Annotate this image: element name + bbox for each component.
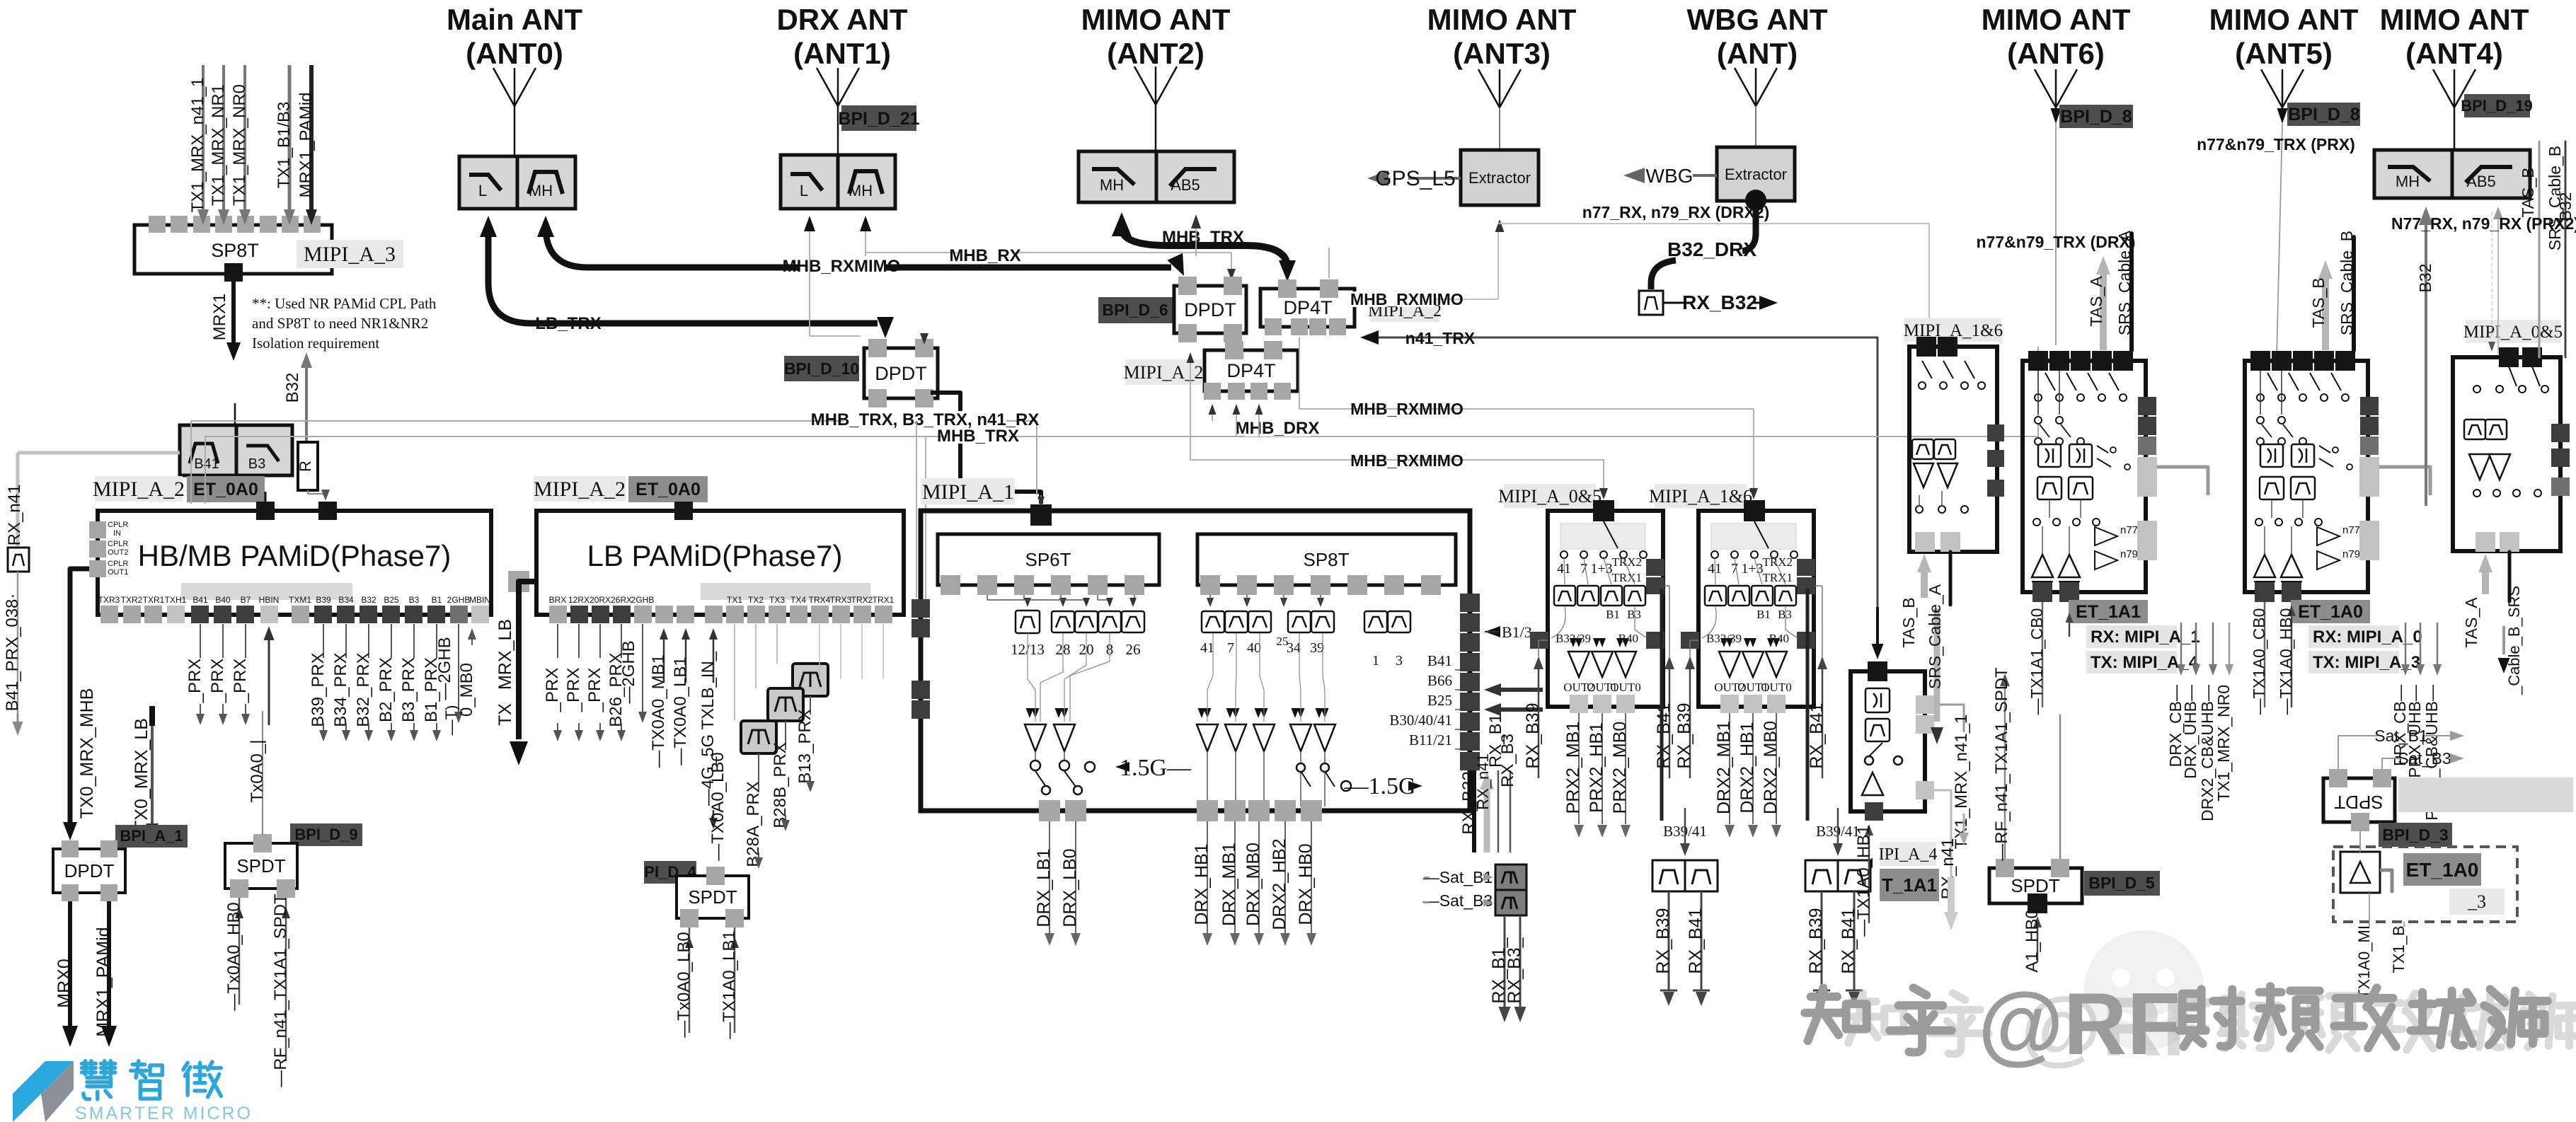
switch DPDT BPI_D_10: [864, 348, 938, 398]
pin module right stack 2: [1460, 613, 1480, 632]
wire TAS_A ANT6: [2100, 272, 2107, 350]
svg-text:MBIN: MBIN: [469, 595, 490, 605]
svg-text:DP4T: DP4T: [1283, 297, 1332, 318]
filter Sat stack: [1495, 864, 1526, 890]
switch SPDT left: [225, 843, 297, 889]
svg-text:—2GHB: —2GHB: [619, 640, 638, 703]
svg-text:_PRX: _PRX: [585, 668, 604, 713]
redaction bar right: [2398, 777, 2573, 812]
wire RX_n41 down: [1934, 790, 1951, 877]
pins HB/MB bottom row: [103, 613, 485, 617]
filter TAS: [1865, 719, 1890, 741]
label BPI_D_8 ANT5: [2287, 103, 2360, 126]
logo Smarter Micro: [13, 1061, 74, 1094]
filter 34: [1288, 611, 1311, 632]
label BPI_A_1: [115, 825, 188, 848]
svg-text:RX_B39: RX_B39: [1674, 702, 1694, 768]
wire RX_B3 arrow: [1490, 707, 1543, 712]
svg-text:MHB_TRX: MHB_TRX: [937, 427, 1019, 446]
wire MHB_TRX thick: [1122, 228, 1287, 267]
svg-text:—TX1A0_HB0: —TX1A0_HB0: [2277, 608, 2295, 715]
wire RX_B1 arrow: [1490, 688, 1543, 692]
svg-text:—Tx0A0_HB0: —Tx0A0_HB0: [224, 902, 243, 1010]
wire Tx0A0_LB0: [689, 927, 691, 1033]
svg-text:39: 39: [1310, 640, 1324, 656]
svg-text:RX_B41: RX_B41: [1686, 908, 1706, 973]
svg-text:SP8T: SP8T: [1303, 549, 1349, 570]
svg-text:TAS_B: TAS_B: [2309, 277, 2328, 328]
svg-text:TRX3: TRX3: [830, 595, 852, 605]
svg-text:BPI_D_6: BPI_D_6: [1102, 301, 1168, 319]
svg-text:_Cable_B_SRS: _Cable_B_SRS: [2505, 586, 2523, 695]
wire PRX_UHB: [2420, 623, 2422, 666]
svg-text:BPI_D_8: BPI_D_8: [2060, 107, 2132, 127]
bus MHB_TRX B3_TRX n41_RX: [191, 421, 1030, 504]
svg-text:TAS_A: TAS_A: [2087, 276, 2105, 327]
pin LB top: [674, 502, 693, 520]
pin module right stack 4: [1460, 653, 1480, 671]
watermark zhihu: [2084, 930, 2204, 1051]
wire Tx0A0: [262, 711, 263, 835]
svg-text:TX1_MRX_NR0: TX1_MRX_NR0: [2214, 685, 2233, 802]
svg-text:MHB_RXMIMO: MHB_RXMIMO: [1350, 290, 1464, 308]
pin R1 right 1: [1987, 424, 2004, 441]
filter B28B: [768, 688, 803, 721]
svg-text:2GHB: 2GHB: [631, 595, 655, 605]
svg-text:B39: B39: [316, 595, 331, 605]
wire TX1_MRX_NR1: [222, 65, 225, 211]
svg-text:(ANT): (ANT): [1717, 37, 1798, 70]
svg-text:@RF: @RF: [1978, 976, 2180, 1073]
switch lever R1: [1922, 361, 1932, 378]
wire DRX2_MB1: [1729, 713, 1730, 824]
svg-text:RX_B41: RX_B41: [1807, 702, 1827, 768]
svg-text:34: 34: [1287, 640, 1301, 656]
svg-text:TX1_B1/B3: TX1_B1/B3: [275, 102, 294, 189]
svg-text:TRX2: TRX2: [851, 595, 873, 605]
switch lever R1: [1965, 361, 1974, 378]
wire WBG: [1693, 174, 1717, 177]
wire MHB_RXMIMO riser to extractor: [1497, 225, 1499, 299]
wire A1_HB0: [2037, 926, 2039, 962]
amp TAS: [1862, 773, 1883, 795]
amp RX MHB: [1253, 724, 1275, 751]
svg-text:TX1_MRX_n41_1: TX1_MRX_n41_1: [1952, 715, 1971, 850]
filter 8: [1098, 611, 1121, 632]
module HB/MB PAMiD: [98, 511, 491, 615]
switch DP4T top: [1260, 289, 1355, 327]
svg-text:DRX_LB0: DRX_LB0: [1060, 848, 1080, 927]
amp RX MHB: [1314, 724, 1335, 751]
svg-text:RX_B41: RX_B41: [1654, 702, 1674, 768]
wire TX0A0_LB1: [685, 638, 687, 683]
svg-text:B11/21: B11/21: [1409, 731, 1452, 748]
label A_3: [2449, 889, 2505, 915]
pin R1 right 2: [1987, 450, 2004, 467]
svg-text:—1.5G: —1.5G: [1343, 773, 1415, 799]
module R1 DRX2: [1909, 347, 1997, 552]
svg-text:Sat_B3: Sat_B3: [2398, 749, 2451, 768]
svg-text:B3_PRX: B3_PRX: [399, 657, 418, 722]
wire riser DP4T top-right: [1328, 248, 1330, 278]
svg-text:n77: n77: [2342, 524, 2360, 536]
wire DPDT to center module: [931, 393, 1041, 504]
svg-text:CPLR: CPLR: [108, 560, 128, 568]
svg-text:SPDT: SPDT: [236, 855, 285, 877]
wire RX_B39: [1668, 891, 1670, 990]
svg-text:_PRX: _PRX: [231, 659, 250, 704]
svg-text:RX_B39: RX_B39: [1523, 702, 1543, 768]
svg-text:B3: B3: [1778, 608, 1792, 621]
svg-text:TRX1: TRX1: [1763, 571, 1793, 584]
svg-text:OUT1: OUT1: [108, 568, 128, 577]
svg-text:TRX4: TRX4: [809, 595, 831, 605]
wire to AB5 ANT4: [2497, 219, 2499, 354]
svg-text:SRS_Cable_A: SRS_Cable_A: [1926, 584, 1944, 689]
pin module right stack 6: [1460, 693, 1480, 711]
pin module right stack 5: [1460, 673, 1480, 691]
svg-text:—RF_n41_TX1A1_SPDT: —RF_n41_TX1A1_SPDT: [1992, 667, 2011, 861]
diplexer ANT4 MH/AB5: [2374, 150, 2452, 198]
wire RX_B41 thick col 2: [1806, 589, 1810, 821]
svg-text:CPLR: CPLR: [108, 521, 128, 529]
svg-text:MHB_RXMIMO: MHB_RXMIMO: [1350, 400, 1464, 418]
svg-text:TAS_A: TAS_A: [2462, 597, 2480, 648]
wire ANT6 to module: [2055, 124, 2057, 345]
label B1/3: [1485, 626, 1500, 637]
svg-text:—T): —T): [442, 705, 460, 736]
label BPI_D_10: [784, 356, 859, 381]
svg-text:MH: MH: [849, 182, 873, 199]
wire Sat_B1: [2338, 736, 2378, 769]
label BPI_D_3: [2379, 823, 2452, 848]
svg-text:12RX: 12RX: [568, 595, 590, 605]
svg-text:TXR3: TXR3: [98, 595, 120, 605]
svg-text:CPLR: CPLR: [108, 540, 128, 548]
svg-text:25: 25: [1277, 635, 1289, 648]
wire B13_PRX: [810, 696, 811, 715]
wire HBIN input: [268, 639, 270, 725]
diplexer ANT2 MH/AB5: [1079, 151, 1156, 202]
pin module left 2: [912, 619, 930, 637]
resistor R: [298, 442, 318, 490]
svg-text:1: 1: [1372, 653, 1379, 669]
filter pair RX: [1652, 860, 1685, 891]
svg-text:n77: n77: [2120, 524, 2138, 536]
wire DRX_LB1: [1049, 821, 1050, 934]
svg-text:7: 7: [1227, 640, 1234, 656]
switch SPDT mirrored: [2323, 778, 2395, 822]
svg-text:B41: B41: [194, 456, 219, 472]
svg-text:MIMO ANT: MIMO ANT: [1982, 3, 2131, 36]
label MIPI_A_2 DP4T: [1370, 299, 1439, 322]
svg-text:(ANT5): (ANT5): [2235, 37, 2333, 70]
svg-text:—TX0A0_LB0: —TX0A0_LB0: [708, 752, 728, 860]
svg-text:DPDT: DPDT: [1184, 299, 1236, 320]
svg-text:DRX_HB1: DRX_HB1: [1192, 843, 1212, 925]
pin module right stack 9: [1460, 752, 1480, 770]
svg-text:RX_B39: RX_B39: [1653, 908, 1673, 973]
switch 1.5G left: [1085, 762, 1095, 772]
antenna ANT: [1735, 68, 1777, 106]
filter B41/B3: [180, 425, 236, 475]
svg-text:1+3: 1+3: [1590, 561, 1612, 577]
svg-text:MHB_RX: MHB_RX: [949, 246, 1020, 265]
pin module left 1: [912, 599, 930, 618]
svg-text:TX0_MRX_MHB: TX0_MRX_MHB: [77, 688, 97, 819]
module center switch bank: [921, 511, 1470, 811]
label ET_0A0 LB: [628, 476, 708, 502]
svg-text:MIPI_A_2: MIPI_A_2: [93, 478, 185, 501]
diplexer ANT1 L/MH: [781, 155, 838, 209]
svg-text:BPI_D_9: BPI_D_9: [294, 826, 357, 843]
svg-text:ET_1A1: ET_1A1: [2076, 602, 2141, 622]
wire RX_B1 out: [1504, 915, 1506, 1008]
wire DRX2_MB0: [1776, 713, 1777, 824]
svg-text:B34: B34: [338, 595, 354, 605]
wire DRX2_HB1: [1752, 713, 1754, 824]
wire DRX2_CB&UHB: [2212, 623, 2214, 666]
wire RX_B41: [1853, 891, 1856, 990]
svg-text:—TX1A1_CB0: —TX1A1_CB0: [2028, 608, 2046, 715]
wire 0_MB0: [471, 638, 473, 645]
svg-text:MRX_LB: MRX_LB: [495, 619, 515, 690]
wire RX_B41 thick col 1: [1660, 589, 1664, 821]
switch SP8T center: [1197, 534, 1456, 585]
svg-text:TXR1: TXR1: [143, 595, 165, 605]
svg-text:BPI_D_3: BPI_D_3: [2382, 826, 2448, 844]
svg-text:_PRX: _PRX: [185, 659, 205, 704]
amp R1 a: [1914, 463, 1933, 487]
svg-text:RX_n41: RX_n41: [5, 485, 24, 546]
svg-text:26RX: 26RX: [611, 595, 632, 605]
svg-text:2GHB: 2GHB: [447, 595, 471, 605]
svg-text:DRX2_MB0: DRX2_MB0: [1761, 721, 1781, 814]
wire 2GHB: [458, 624, 459, 704]
wire PRX2_HB1: [1602, 713, 1603, 824]
pins SP8T outputs: [1200, 575, 1220, 595]
svg-text:MIPI_A_2: MIPI_A_2: [1124, 362, 1204, 383]
amp R4 b: [2489, 454, 2510, 480]
label ET_1A1 TAS: [1880, 869, 1939, 901]
antenna ANT0: [493, 68, 536, 106]
wire TAS_A R4: [2482, 569, 2489, 594]
svg-text:B32: B32: [283, 373, 302, 403]
switch DPDT bottom-left: [53, 849, 125, 893]
svg-text:WBG: WBG: [1646, 165, 1694, 187]
svg-text:B3: B3: [1627, 608, 1641, 621]
svg-text:TX3: TX3: [769, 595, 785, 605]
label BPI_D_6: [1098, 297, 1173, 323]
svg-text:IPI_A_4: IPI_A_4: [1879, 845, 1938, 864]
amp RX LB: [1054, 724, 1075, 751]
svg-text:DRX2_HB1: DRX2_HB1: [1737, 722, 1757, 813]
svg-text:n79: n79: [2342, 548, 2360, 560]
wire into TAS top: [1876, 607, 1879, 645]
module R2 ANT6 TRX: [2023, 361, 2146, 592]
svg-text:TX4: TX4: [790, 595, 806, 605]
svg-text:1.5G—: 1.5G—: [1120, 755, 1192, 781]
svg-text:SP6T: SP6T: [1025, 549, 1071, 570]
connector RX_n41: [8, 548, 29, 572]
svg-text:LB_TRX: LB_TRX: [535, 314, 601, 333]
svg-text:MRX1_PAMid: MRX1_PAMid: [93, 927, 113, 1036]
pin HB top2: [318, 502, 337, 520]
wire TX0_MRX_MHB: [70, 569, 89, 826]
svg-text:—TX1A0_LB1: —TX1A0_LB1: [720, 930, 739, 1039]
wire DRX_HB0: [1311, 821, 1312, 934]
svg-text:_PRX: _PRX: [564, 668, 583, 713]
wire MHB_RXMIMO to MIPI_A_0&5: [1190, 354, 1604, 495]
svg-text:RX_B39: RX_B39: [1806, 908, 1826, 973]
svg-text:B40: B40: [215, 595, 231, 605]
svg-text:SP8T: SP8T: [211, 240, 259, 261]
wire Sat_B3: [2382, 758, 2401, 769]
module R4 ANT4 PRX: [2453, 357, 2560, 551]
wire RX_B41: [1669, 658, 1671, 778]
wire RX_B39: [1821, 891, 1823, 990]
svg-text:DPDT: DPDT: [875, 363, 927, 384]
svg-text:L: L: [800, 182, 808, 199]
wire RX_B3: [1510, 770, 1512, 852]
svg-text:—2GHB: —2GHB: [435, 637, 454, 700]
svg-text:DRX ANT: DRX ANT: [776, 3, 907, 36]
svg-text:MHB_RXMIMO: MHB_RXMIMO: [783, 257, 901, 276]
svg-text:B28A_PRX: B28A_PRX: [744, 781, 763, 867]
svg-text:T_1A1: T_1A1: [1882, 874, 1937, 896]
wire DRX_LB0: [1075, 821, 1076, 934]
filter 20: [1075, 611, 1098, 632]
svg-text:**: Used NR PAMid CPL Path: **: Used NR PAMid CPL Path: [252, 295, 437, 312]
wire B32 up: [305, 366, 308, 442]
wire TX1A1_CB0 R2: [2042, 602, 2044, 707]
svg-text:BPI_D_8: BPI_D_8: [2288, 105, 2360, 125]
wire SRS_Cable_B R4: [2508, 552, 2512, 601]
svg-text:26: 26: [1126, 641, 1141, 658]
svg-text:3: 3: [1396, 653, 1403, 669]
wire B32 ANT4: [2425, 219, 2427, 506]
svg-text:TX1: TX1: [727, 595, 742, 605]
wire SRS_Cable_B ANT5: [2352, 237, 2356, 350]
switch SPDT BPI_D_4: [677, 876, 749, 918]
svg-text:SPDT: SPDT: [688, 886, 737, 908]
svg-text:(ANT1): (ANT1): [793, 37, 891, 70]
svg-text:(ANT2): (ANT2): [1107, 37, 1204, 70]
module R3 ANT5 TRX: [2245, 361, 2368, 592]
pins SP8T inputs: [149, 216, 166, 233]
pin module left 3: [912, 681, 930, 699]
svg-text:—Tx0A0_LB0: —Tx0A0_LB0: [674, 932, 694, 1037]
wire Tx0A0_HB0: [238, 898, 241, 1005]
svg-text:MIMO ANT: MIMO ANT: [2380, 3, 2529, 36]
pin SP8T out: [224, 263, 243, 282]
svg-text:MHB_TRX: MHB_TRX: [1162, 228, 1244, 247]
filter 28: [1052, 611, 1074, 632]
svg-text:DRX_MB1: DRX_MB1: [1219, 843, 1239, 926]
svg-text:OUT0: OUT0: [1610, 681, 1640, 694]
svg-text:MHB_RXMIMO: MHB_RXMIMO: [1350, 451, 1464, 470]
svg-text:MIPI_A_1: MIPI_A_1: [922, 480, 1014, 504]
wire TX1_MRX_NR0: [243, 65, 246, 211]
antenna ANT4: [2433, 69, 2476, 108]
amp RX MHB: [1225, 724, 1246, 751]
svg-text:BPI_A_1: BPI_A_1: [120, 827, 183, 845]
filter 26: [1122, 611, 1144, 632]
svg-text:TX1_MRX_NR0: TX1_MRX_NR0: [230, 84, 249, 206]
svg-text:TAS_B: TAS_B: [1899, 597, 1918, 647]
svg-text:OUT0: OUT0: [1761, 681, 1791, 694]
label ET_0A0 HB: [187, 476, 265, 502]
svg-text:MIPI_A_3: MIPI_A_3: [304, 243, 396, 266]
filter pair RX: [1805, 860, 1838, 891]
pin center module top: [1030, 504, 1052, 526]
svg-text:B41: B41: [1427, 652, 1452, 669]
antenna ANT2: [1134, 66, 1177, 105]
wire DRX_UHB: [2195, 623, 2197, 666]
svg-text:MRX0: MRX0: [54, 959, 74, 1007]
module module MIPI_A_0&5: [1548, 511, 1663, 707]
svg-text:(ANT6): (ANT6): [2007, 37, 2105, 70]
wire RF_n41_TX1A1_SPDT: [285, 898, 287, 1061]
module LB PAMiD: [536, 511, 904, 615]
wire RX_B39: [1689, 658, 1691, 778]
module module MIPI_A_1&6: [1698, 511, 1814, 707]
svg-text:DRX2_HB2: DRX2_HB2: [1270, 838, 1289, 930]
svg-text:n79: n79: [2120, 548, 2138, 560]
switch lever R1: [1943, 361, 1953, 378]
svg-text:MIMO ANT: MIMO ANT: [1081, 3, 1231, 36]
svg-text:B25: B25: [1427, 692, 1452, 709]
wire RX_B41: [1701, 891, 1703, 990]
dashed module ET_1A0: [2333, 847, 2517, 922]
svg-text:TX2: TX2: [748, 595, 764, 605]
filter 3: [1388, 611, 1410, 632]
wire MRX1_PAMid: [309, 65, 314, 211]
svg-text:B3: B3: [409, 595, 420, 605]
wire TX1_B1/B3: [288, 65, 292, 211]
wire SRS_Cable_A: [1949, 552, 1953, 605]
svg-text:ET_1A0: ET_1A0: [2406, 859, 2479, 881]
svg-text:_PRX: _PRX: [543, 668, 562, 713]
label BPI_D_8 ANT6: [2059, 105, 2133, 128]
label MIPI_A_1: [921, 478, 1015, 504]
pin module right stack 7: [1460, 712, 1480, 731]
wire bus to module left: [916, 421, 917, 598]
switch TAS: [1865, 756, 1873, 765]
svg-text:1+3: 1+3: [1741, 561, 1763, 577]
filter B28A: [741, 721, 776, 753]
pin R1 right 3: [1987, 480, 2004, 497]
svg-text:SMARTER MICRO: SMARTER MICRO: [75, 1104, 253, 1122]
svg-text:B1: B1: [1756, 608, 1771, 621]
amp R1 b: [1938, 463, 1957, 487]
wire TX1A0_MI: [2369, 893, 2370, 927]
wire SRS_Cable_B right edge: [2565, 141, 2567, 357]
pin module left 4: [912, 700, 930, 719]
svg-text:B30/40/41: B30/40/41: [1389, 712, 1452, 729]
wire TX0_MRX_LB: [149, 706, 155, 726]
svg-text:and SP8T to need NR1&NR2: and SP8T to need NR1&NR2: [252, 315, 428, 332]
wire TX1A0_CB0: [2264, 602, 2266, 707]
svg-text:TX1A0_MI: TX1A0_MI: [2355, 925, 2373, 999]
amp RX MHB: [1290, 724, 1311, 751]
svg-text:Main ANT: Main ANT: [447, 3, 582, 36]
wire n77_RX n79_RX DRX2: [1498, 224, 1929, 342]
svg-text:LB PAMiD(Phase7): LB PAMiD(Phase7): [587, 539, 842, 572]
filter 1: [1364, 611, 1387, 632]
wire into DPDT right pin: [924, 336, 925, 340]
svg-text:ET_0A0: ET_0A0: [636, 480, 701, 499]
